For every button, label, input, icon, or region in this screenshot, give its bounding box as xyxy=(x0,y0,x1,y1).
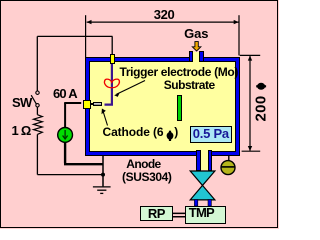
wire: source bottom horizontal to anode stem xyxy=(64,163,103,165)
0.5 Pa gauge readout box xyxy=(190,126,233,143)
ground symbol xyxy=(93,186,111,188)
trigger coil (red loop) xyxy=(104,79,119,88)
dimension 200: vertical line xyxy=(249,56,251,151)
vacuum gauge stem xyxy=(228,156,230,161)
label: SW xyxy=(12,96,32,109)
annotation arrow to trigger electrode xyxy=(117,81,146,95)
cathode feedthrough to rod connector xyxy=(91,103,93,105)
trigger feedthrough (top wall) xyxy=(110,54,115,64)
vacuum chamber (anode vessel) xyxy=(85,57,240,156)
phi symbol of Cathode label xyxy=(167,132,174,140)
wire: resistor down xyxy=(36,134,38,174)
dimension 200: bottom extension line xyxy=(242,150,261,152)
label: Substrate xyxy=(164,79,215,91)
wire: switch to resistor xyxy=(36,107,38,115)
dimension 200: top extension line xyxy=(240,54,261,56)
substrate bar xyxy=(177,95,181,121)
junction dot xyxy=(101,173,105,177)
vacuum gauge (olive circle) xyxy=(221,161,235,175)
wire: drop to trigger feedthrough xyxy=(111,36,113,54)
label: Gas xyxy=(184,27,208,40)
switch SW top contact xyxy=(36,91,39,94)
wire: drop to switch SW xyxy=(36,36,38,91)
wire: current source vertical top xyxy=(64,103,66,128)
label: Cathode (6 phi) xyxy=(103,126,164,138)
valve-TMP stub right xyxy=(208,200,211,207)
cathode feedthrough (left wall) xyxy=(83,100,92,109)
label: 320 xyxy=(154,8,175,21)
dimension 320: left arrowhead xyxy=(87,20,92,24)
label: 0.5 Pa xyxy=(193,127,229,140)
switch SW blade xyxy=(31,95,36,104)
RP-TMP pipe xyxy=(173,213,186,215)
label: 60 A xyxy=(53,87,77,100)
gas inlet tube left wall xyxy=(189,51,193,62)
dimension 320: line xyxy=(87,21,239,23)
label: 1 ohm xyxy=(12,124,31,137)
current source 60 A xyxy=(58,127,73,142)
dimension 320: right extension line xyxy=(238,15,240,55)
anode ground stem xyxy=(102,156,104,187)
label: 200 (rotated) xyxy=(254,96,269,122)
cathode rod (6 phi) xyxy=(93,102,102,106)
wire: current source top to feedthrough xyxy=(64,102,81,104)
gate valve (bowtie) xyxy=(190,171,215,185)
label: (SUS304) xyxy=(122,171,172,183)
dimension 320: left extension line xyxy=(85,15,87,57)
RP box xyxy=(140,206,173,221)
wire: trigger circuit top horizontal xyxy=(37,35,112,37)
label: Trigger electrode (Mo) xyxy=(120,66,239,78)
dimension 320: right arrowhead xyxy=(234,20,239,24)
pump port left wall xyxy=(196,150,201,171)
TMP box xyxy=(185,206,226,225)
gas arrow (orange) xyxy=(192,42,201,51)
phi symbol of 200 dim (rotated) xyxy=(257,83,265,90)
trigger electrode wire (inside chamber) xyxy=(105,64,112,105)
label: Anode xyxy=(126,158,160,170)
resistor 1 ohm zigzag xyxy=(34,115,43,135)
dimension 200: bottom arrowhead xyxy=(248,146,252,151)
wire: current source bottom xyxy=(64,142,66,163)
pump port interior channel xyxy=(201,150,208,171)
switch SW bottom contact xyxy=(36,104,39,107)
label: RP xyxy=(148,207,165,220)
annotation arrow to cathode xyxy=(103,112,107,126)
dimension 200: top arrowhead xyxy=(248,56,252,61)
label: TMP xyxy=(189,206,214,219)
valve-TMP stub left xyxy=(194,200,197,207)
gas inlet interior channel xyxy=(193,52,200,63)
pump port right wall xyxy=(208,150,213,171)
gas inlet tube right wall xyxy=(199,51,203,62)
wire: bottom horizontal to ground junction xyxy=(37,174,103,176)
